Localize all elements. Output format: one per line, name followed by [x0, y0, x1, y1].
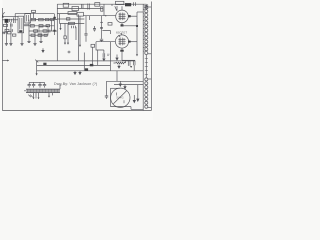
- capacitor C6a: [128, 61, 130, 66]
- arrow near C6: [130, 66, 132, 68]
- tube V1 hatch: [119, 13, 124, 21]
- wire V3 left vertical: [110, 88, 112, 106]
- capacitor across buses: [88, 4, 90, 10]
- wire row y23.5 osc: [60, 23, 85, 25]
- tube V1 top pins: [115, 6, 122, 11]
- resistor vertical x65: [64, 36, 66, 39]
- output coil loop t1: [145, 6, 148, 9]
- arrow x117 under V2: [116, 55, 118, 61]
- resistor R8 zigzag: [116, 62, 126, 64]
- tube V1 plate wire: [128, 15, 137, 17]
- component box under grid wire: [91, 44, 95, 47]
- wire vertical x29: [28, 20, 30, 42]
- wire x78.5 vertical: [78, 14, 80, 61]
- wire vertical x104: [103, 4, 105, 16]
- wire antenna input: [2, 19, 18, 21]
- wire x92.5 drop: [92, 47, 94, 65]
- output coil loop t11: [145, 44, 148, 47]
- wire rail D lower: [107, 80, 144, 82]
- choke terminals: [24, 84, 60, 91]
- arrow left stub: [7, 60, 9, 62]
- arrow drop x134.3: [133, 95, 135, 103]
- resistor lower left b: [13, 34, 16, 36]
- tube V2 grid wire: [96, 41, 115, 43]
- diagonal marks: [28, 95, 32, 98]
- arrow x68: [67, 43, 69, 45]
- coil inside T2: [27, 15, 29, 21]
- wire row y13.6 osc: [57, 13, 77, 15]
- svg-text:Dwg.By: Van Jackson (?): Dwg.By: Van Jackson (?): [54, 82, 97, 86]
- output coil loop t2: [145, 10, 148, 13]
- resistor box osc3: [69, 22, 75, 24]
- coil ladder ticks top: [143, 9, 145, 51]
- capacitor ticks x101.5: [100, 28, 103, 29]
- capacitor left col D: [11, 29, 13, 32]
- arrow x65: [64, 43, 66, 45]
- capacitor row35 c: [44, 34, 47, 36]
- wire drop x22: [21, 33, 23, 44]
- resistor box top bus 1: [63, 3, 68, 7]
- arrow on rail join: [36, 73, 38, 75]
- junction blob rail C: [85, 68, 88, 70]
- tube V1 cathode: [121, 23, 123, 26]
- tube V3 diagonal: [113, 91, 126, 104]
- resistor row35 a: [31, 34, 35, 36]
- field coil loop b6: [145, 97, 148, 100]
- wire rail B: [37, 64, 111, 66]
- wire vertical x51.6: [51, 20, 53, 31]
- coil L1b lines: [13, 18, 15, 24]
- tube V2 plate wire: [128, 41, 137, 43]
- wire x84.3 drop: [83, 53, 85, 71]
- wire drop x7: [5, 23, 7, 44]
- resistor R4a: [30, 25, 34, 27]
- output coil loop t5: [145, 21, 148, 24]
- plate bus vertical x137: [136, 12, 138, 54]
- capacitor bank C9: [38, 82, 41, 87]
- capacitor C3b: [100, 39, 103, 40]
- label smudge C5: [107, 53, 110, 56]
- capacitor C2a: [45, 19, 49, 21]
- wire vertical x59.5: [59, 14, 61, 24]
- capacitor C2b: [50, 19, 54, 21]
- wire rail A: [37, 60, 135, 62]
- wire row y25.8: [24, 25, 54, 27]
- wire V3 top: [111, 87, 121, 89]
- resistor zigzag top right: [145, 4, 148, 10]
- tube V2 envelope: [115, 35, 128, 48]
- ground G1: [5, 44, 8, 46]
- ground G4: [33, 44, 36, 46]
- coil middle segment: [145, 55, 147, 78]
- component box U1: [77, 12, 83, 16]
- rectifier tube V3 envelope: [111, 88, 130, 107]
- field coil loop b3: [145, 86, 148, 89]
- resistor R2: [31, 18, 36, 20]
- output coil loop t9: [145, 36, 148, 39]
- output coil loop t12: [145, 48, 148, 51]
- junction blob cathode V2: [120, 50, 123, 52]
- wire box T1 out: [24, 24, 29, 26]
- junction blob plate V1: [128, 15, 130, 17]
- wire drop x60.5: [60, 24, 62, 29]
- wire second top bus: [57, 8, 103, 10]
- resistor R5b: [43, 30, 47, 32]
- capacitor C3: [84, 34, 87, 35]
- wire row y19.6: [31, 19, 58, 21]
- output coil loop t4: [145, 17, 148, 20]
- field coil loop b5: [145, 93, 148, 96]
- field coil loop b7: [145, 101, 148, 104]
- wire cluster top under V2: [122, 59, 135, 61]
- wire row y31: [29, 30, 57, 32]
- wire drop x80: [79, 16, 81, 45]
- arrow x60.5: [59, 28, 61, 30]
- wire drop x65: [64, 24, 66, 36]
- resistor box osc1: [68, 12, 77, 15]
- heater pins: [34, 93, 39, 99]
- capacitor C5: [103, 50, 105, 58]
- field coil loop b8: [145, 105, 148, 108]
- resistor box osc2: [67, 18, 70, 20]
- arrow drop x120.3: [119, 81, 121, 86]
- capacitor bank C7: [28, 82, 31, 87]
- IF transformer box T2: [25, 13, 31, 23]
- arrow drop x125: [124, 85, 126, 89]
- coil inside T1: [20, 18, 22, 29]
- wire drop x89.5: [89, 16, 91, 20]
- wire rail C: [37, 70, 144, 72]
- resistor box C over tube: [116, 1, 124, 4]
- junction blob x137: [136, 25, 138, 27]
- component box between tubes: [108, 23, 112, 26]
- ground G3: [20, 44, 23, 46]
- capacitor bank C8: [32, 82, 35, 87]
- arrow on grid wire: [105, 15, 107, 17]
- wire x110.4 vertical: [109, 42, 111, 71]
- T1 bottom core blob: [19, 30, 22, 32]
- coil stub lower: [148, 78, 152, 80]
- capacitor C-ant: [10, 19, 12, 22]
- resistor R5a: [34, 30, 38, 32]
- wire lower left: [2, 32, 7, 34]
- ground G5: [27, 42, 30, 43]
- output coil loop t7: [145, 29, 148, 32]
- wire rail join x36.6: [36, 61, 38, 74]
- capacitor left col B: [11, 24, 13, 27]
- wire drop x76: [75, 27, 77, 40]
- wire C6b to rail: [133, 65, 135, 71]
- capacitor C2c: [48, 30, 50, 33]
- wire vertical x54.4: [53, 14, 55, 35]
- wire row y19 osc: [57, 18, 84, 20]
- tube V2 top pin: [119, 33, 122, 37]
- ground G2: [9, 44, 12, 46]
- arrow drop x43: [42, 48, 44, 52]
- resistor lower left: [8, 32, 12, 34]
- wire x117 drop: [116, 71, 118, 82]
- ground G6: [39, 42, 42, 43]
- wire drop x35: [34, 32, 36, 43]
- resistor R4b: [39, 25, 43, 27]
- small marks x68: [68, 51, 71, 54]
- wire drop x101.5: [101, 16, 103, 39]
- filter choke L2 core: [26, 89, 60, 93]
- speaker line vertical x143.2: [142, 5, 144, 111]
- resistor left col C: [5, 29, 9, 31]
- wire y30.6 link: [102, 31, 110, 34]
- wire top link: [2, 16, 18, 18]
- resistor vertical x101: [101, 7, 103, 11]
- wire V3 bottom: [111, 106, 132, 108]
- output coil loop t3: [145, 13, 148, 16]
- output coil loop t8: [145, 32, 148, 35]
- field coil loop b1: [145, 78, 148, 81]
- tube V2 hatch: [119, 38, 124, 46]
- junction blob rail B left: [43, 63, 46, 65]
- wire cathode V1 to bus: [122, 25, 137, 27]
- border frame bottom: [2, 110, 151, 112]
- arrow under R8: [118, 65, 120, 69]
- sub pins right: [49, 93, 53, 96]
- capacitor lower left: [3, 32, 5, 35]
- wire drop x41: [40, 32, 42, 41]
- resistor R4c: [46, 25, 50, 27]
- resistor R3: [39, 18, 44, 20]
- junction blob x54 row31: [53, 30, 55, 32]
- wire drop x86: [85, 16, 87, 34]
- output coil loop t6: [145, 25, 148, 28]
- junction blob x54: [53, 17, 55, 19]
- wire drop x11.5: [10, 22, 12, 44]
- wire top B+ bus: [57, 3, 146, 5]
- capacitor x94.5: [93, 26, 96, 32]
- wire tube1 grid: [83, 15, 116, 17]
- coil stub top: [148, 6, 152, 8]
- output coil loop t10: [145, 40, 148, 43]
- wire row y35.2: [29, 34, 47, 36]
- wire cap bank top: [29, 81, 44, 83]
- capacitor bank C10: [43, 82, 46, 87]
- svg-text:5U4G: 5U4G: [116, 96, 123, 100]
- field coil loop b2: [145, 82, 148, 85]
- socket pins: [72, 26, 76, 28]
- junction blob plate V2: [128, 41, 130, 43]
- tube V3 electrodes: [117, 93, 124, 104]
- arrow drop x137.8: [137, 85, 139, 102]
- junction blob cathode V1: [121, 24, 124, 26]
- capacitor C11: [105, 96, 108, 97]
- wire left stub mid: [2, 60, 7, 62]
- arrow x80: [79, 45, 81, 47]
- resistor left col A: [4, 24, 8, 26]
- enclosure box mixer: [39, 26, 48, 35]
- tube V1 envelope: [116, 10, 129, 23]
- tube V2 cathode: [121, 48, 123, 50]
- capacitor above mixer row: [32, 10, 36, 12]
- coil stub bottom: [148, 107, 152, 109]
- capacitor ticks top: [82, 5, 84, 9]
- wire vertical x57.3: [56, 4, 58, 61]
- tick rail A start: [35, 60, 38, 63]
- plate cap blob D: [125, 3, 131, 6]
- output coil loop t13: [145, 51, 148, 54]
- arrow under C5: [103, 58, 105, 61]
- arrow drop x75: [74, 71, 76, 75]
- wire x96 corner: [96, 42, 104, 50]
- wire rail E lower: [114, 84, 143, 86]
- coil tick marks mid: [145, 59, 148, 75]
- resistor row35 b: [38, 34, 42, 36]
- tick on x101.5: [100, 21, 103, 23]
- junction tick x112: [111, 4, 113, 6]
- wire coil top: [14, 14, 16, 18]
- resistor box top bus 2: [72, 7, 79, 11]
- capacitor C6b: [133, 61, 135, 66]
- wire x106.5 vertical: [106, 81, 108, 95]
- wire V3 bottom drop: [131, 107, 143, 110]
- wire input line y13.7: [15, 13, 54, 15]
- antenna: [2, 15, 4, 18]
- choke winding hatch: [28, 89, 60, 93]
- border frame left: [1, 8, 3, 111]
- resistor box top bus 3: [95, 3, 100, 7]
- arrow drop x80 rail: [79, 71, 81, 75]
- wire x97.7 drop: [97, 50, 99, 65]
- coil stub mid1: [148, 53, 152, 55]
- IF transformer box T1: [18, 16, 24, 33]
- coil L1 core blob: [5, 19, 9, 23]
- junction blob rail B right: [90, 64, 94, 66]
- field coil loop b4: [145, 90, 148, 93]
- border frame right: [150, 2, 152, 111]
- wire drop x68: [67, 24, 69, 43]
- capacitor marks E: [134, 2, 136, 6]
